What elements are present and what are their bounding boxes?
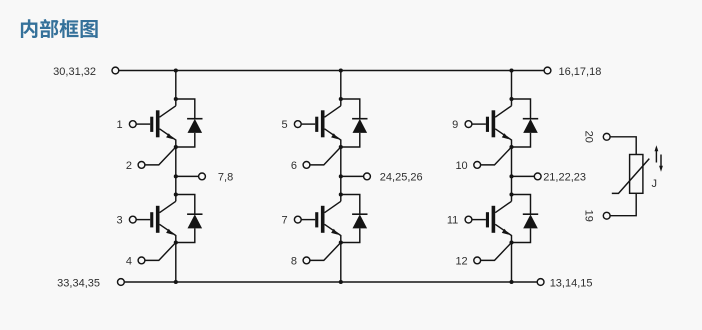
svg-text:21,22,23: 21,22,23 [543, 171, 586, 183]
svg-text:5: 5 [281, 119, 287, 131]
svg-text:6: 6 [291, 160, 297, 172]
svg-text:3: 3 [116, 215, 122, 227]
svg-text:J: J [652, 178, 658, 190]
svg-text:1: 1 [116, 119, 122, 131]
svg-text:8: 8 [291, 256, 297, 268]
svg-text:24,25,26: 24,25,26 [380, 171, 423, 183]
svg-text:30,31,32: 30,31,32 [53, 66, 96, 78]
svg-text:13,14,15: 13,14,15 [550, 278, 593, 290]
svg-text:10: 10 [455, 160, 467, 172]
svg-text:7: 7 [281, 215, 287, 227]
svg-text:11: 11 [447, 215, 458, 227]
svg-text:33,34,35: 33,34,35 [57, 278, 100, 290]
svg-text:7,8: 7,8 [218, 171, 233, 183]
svg-text:4: 4 [126, 256, 132, 268]
svg-text:12: 12 [455, 256, 467, 268]
svg-text:19: 19 [582, 210, 594, 222]
svg-text:20: 20 [582, 131, 594, 143]
svg-text:2: 2 [126, 160, 132, 172]
svg-text:16,17,18: 16,17,18 [559, 66, 602, 78]
svg-text:9: 9 [452, 119, 458, 131]
